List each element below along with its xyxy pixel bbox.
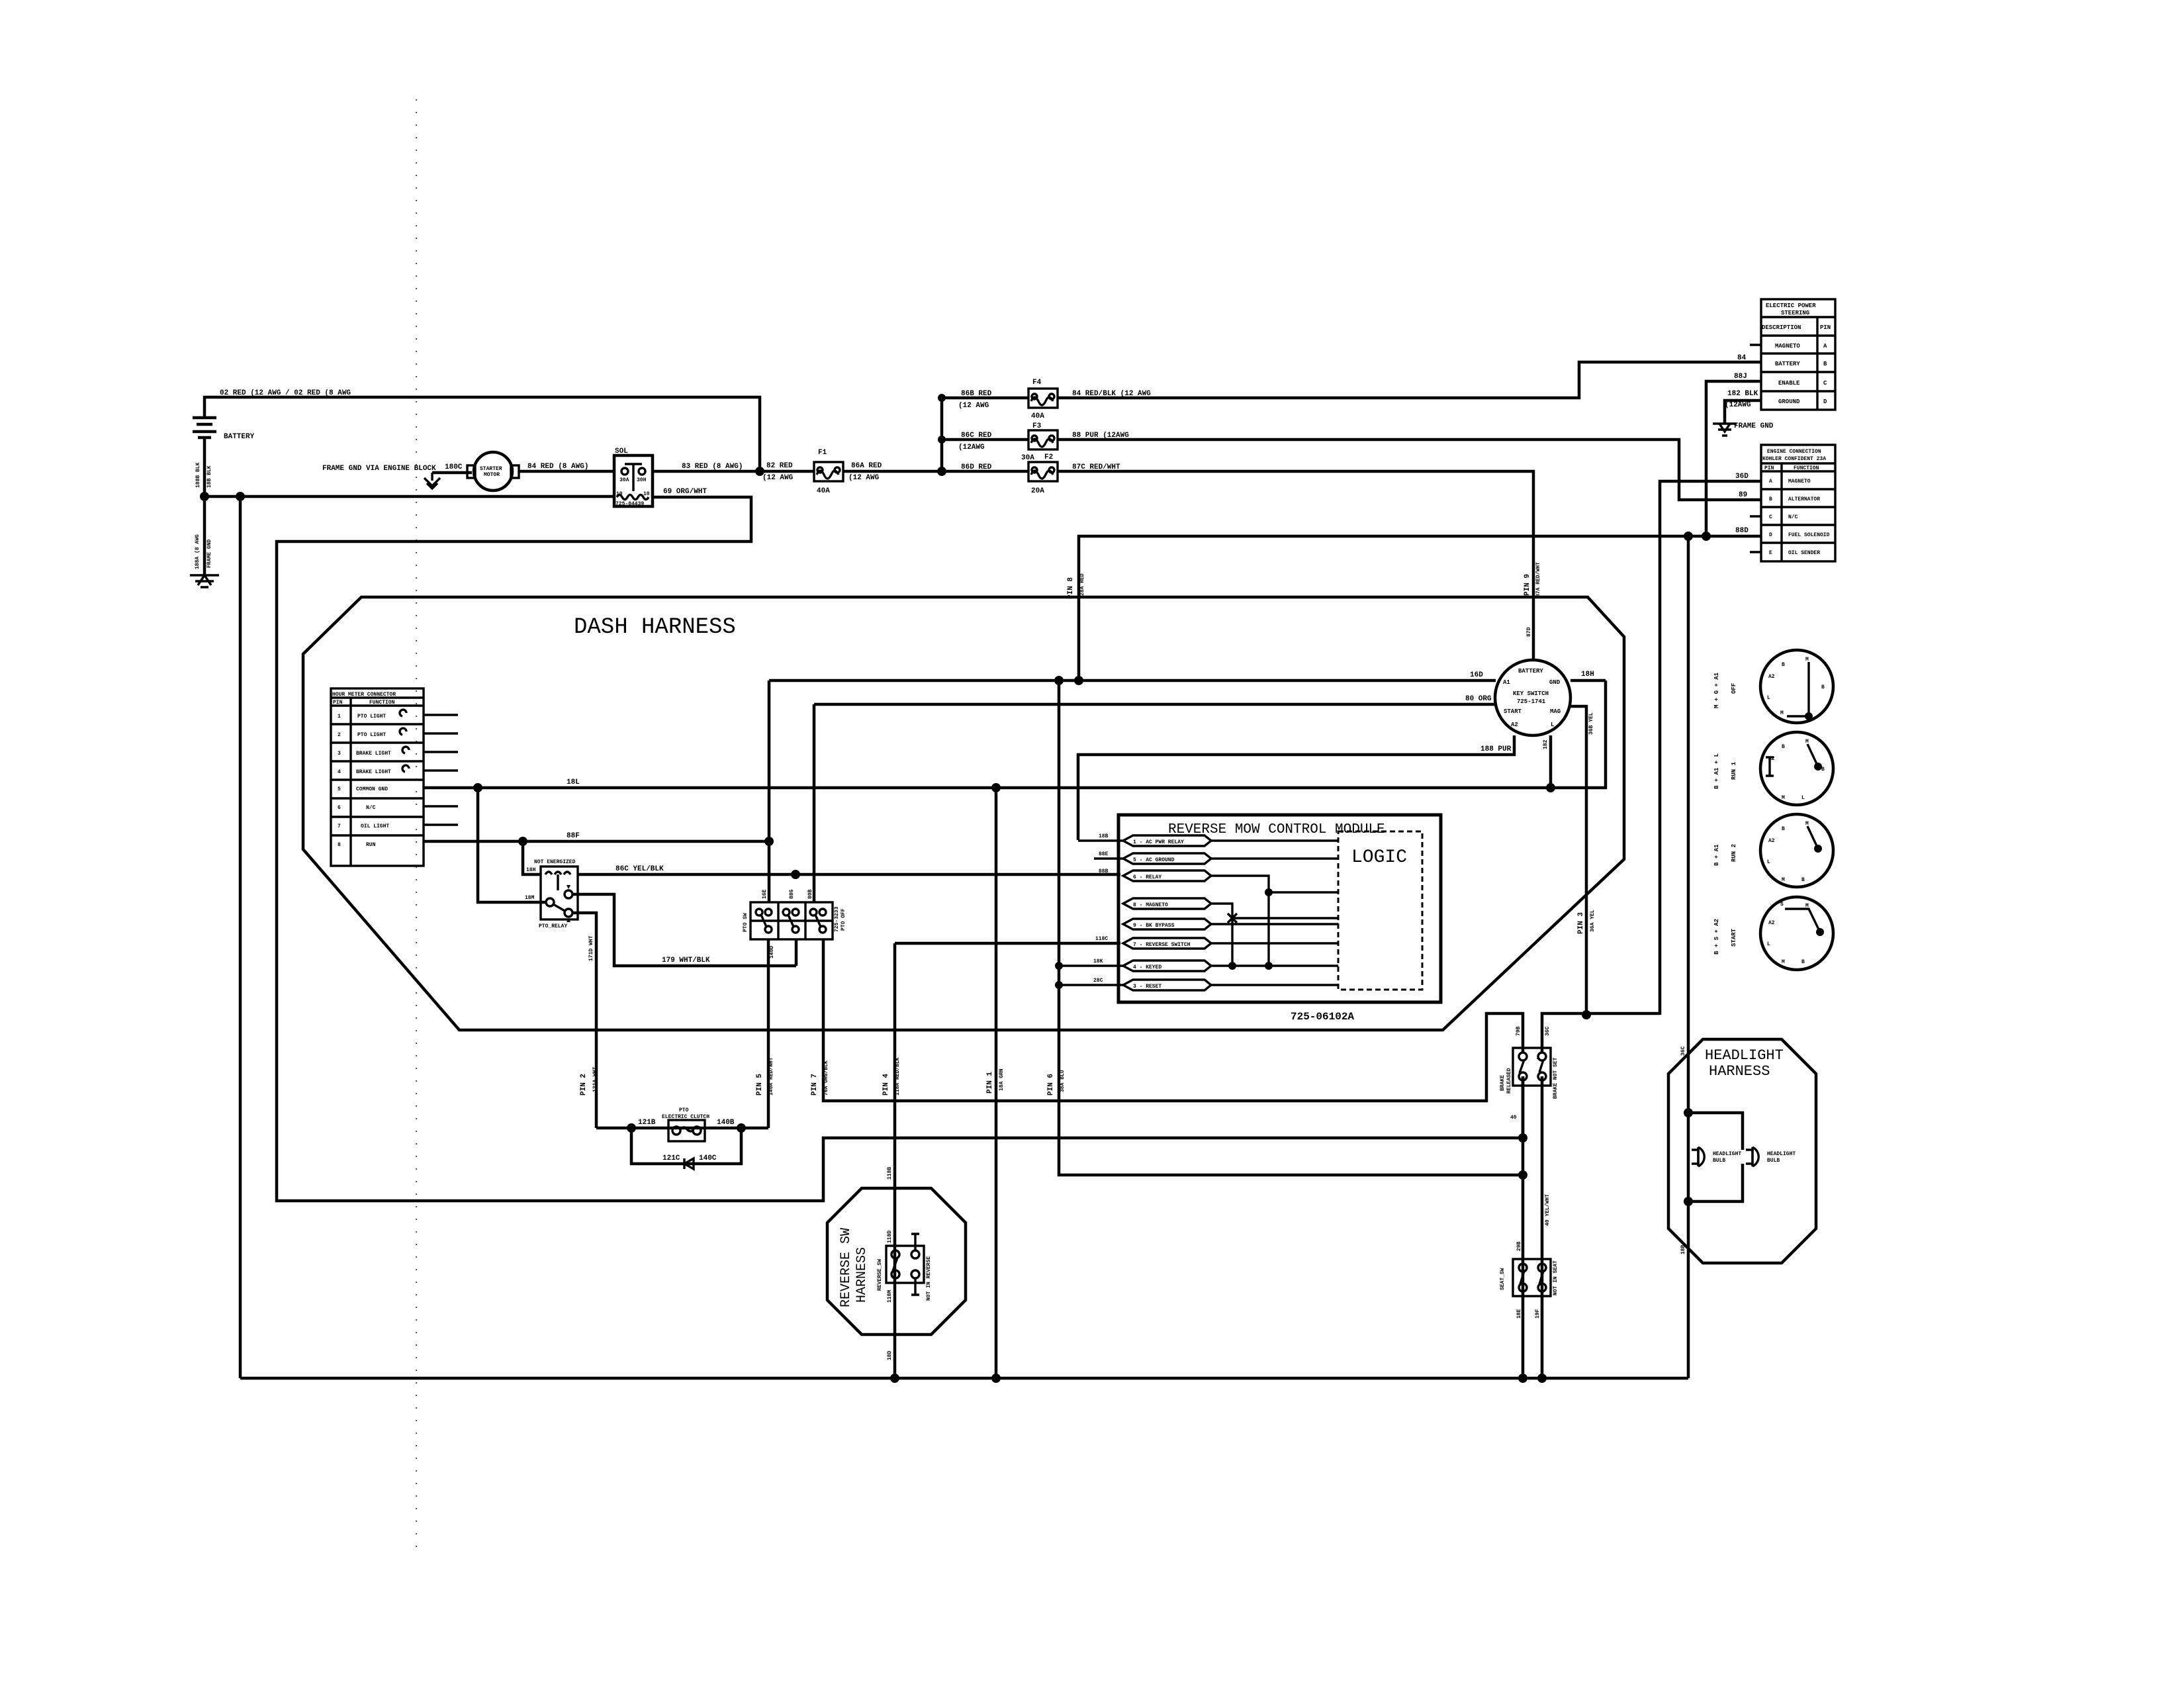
wire 88F run — [424, 840, 769, 843]
svg-text:6: 6 — [338, 805, 341, 811]
wire fuse bus vertical — [940, 398, 944, 471]
svg-text:B + S + A2: B + S + A2 — [1713, 919, 1720, 955]
wire 80 ORG key START — [814, 703, 1496, 706]
svg-text:86D RED: 86D RED — [961, 463, 992, 471]
key position START circle — [1760, 897, 1833, 970]
headlight bulb 1 — [1692, 1147, 1704, 1166]
svg-text:B: B — [1782, 744, 1785, 750]
svg-text:BATTERY: BATTERY — [1775, 361, 1800, 367]
pin pill 8 reset — [1123, 980, 1211, 990]
svg-text:121A WHT: 121A WHT — [592, 1066, 598, 1092]
wire relay coil out 86C YEL/BLK to module relay pill — [578, 873, 1120, 876]
pin pill 4 magneto — [1123, 898, 1211, 909]
svg-text:36B YEL: 36B YEL — [1588, 712, 1594, 735]
svg-text:BULB: BULB — [1713, 1158, 1725, 1164]
svg-text:7 - REVERSE SWITCH: 7 - REVERSE SWITCH — [1133, 942, 1191, 948]
wire F4 input — [942, 397, 1028, 400]
svg-text:F3: F3 — [1032, 422, 1042, 430]
svg-text:PTO_RELAY: PTO_RELAY — [539, 923, 567, 929]
wire brake BR down to bus — [1541, 1076, 1544, 1378]
wire pin3 stub — [424, 751, 458, 753]
svg-text:18K: 18K — [1093, 959, 1103, 964]
switch bank PTO SW — [751, 902, 833, 939]
svg-text:LOGIC: LOGIC — [1351, 847, 1407, 868]
pin pill 5 bypass — [1123, 919, 1211, 929]
svg-text:5: 5 — [338, 786, 341, 792]
svg-text:140A RED/WHT: 140A RED/WHT — [768, 1057, 774, 1096]
wire F3 input — [942, 438, 1028, 442]
svg-text:F4: F4 — [1032, 379, 1042, 387]
svg-text:PTO LIGHT: PTO LIGHT — [357, 732, 386, 738]
svg-text:16E: 16E — [762, 889, 768, 899]
wire PIN 7 76A ORG/BLK — [823, 939, 1523, 1101]
contacts section 2 — [783, 909, 790, 915]
svg-text:30A: 30A — [619, 477, 629, 483]
svg-text:188A (8 AWG: 188A (8 AWG — [195, 534, 201, 569]
svg-text:(12 AWG: (12 AWG — [848, 474, 880, 482]
svg-text:OFF: OFF — [1731, 683, 1737, 694]
svg-text:MOTOR: MOTOR — [484, 472, 500, 478]
svg-text:180C: 180C — [445, 463, 463, 471]
wire engine oil sender stub — [1750, 551, 1761, 553]
svg-text:START: START — [1731, 928, 1737, 947]
connector table dash harness pins — [331, 688, 424, 866]
svg-text:18L: 18L — [567, 778, 580, 786]
svg-text:118C: 118C — [1095, 936, 1108, 942]
wire EPS ground D — [1725, 400, 1761, 424]
svg-text:HEADLIGHT: HEADLIGHT — [1767, 1151, 1796, 1157]
svg-text:18D: 18D — [887, 1350, 893, 1360]
svg-text:RUN: RUN — [366, 842, 376, 848]
svg-text:725-04439: 725-04439 — [615, 501, 644, 507]
node EPS enable tap — [1702, 532, 1711, 541]
svg-text:FUEL SOLENOID: FUEL SOLENOID — [1788, 532, 1830, 538]
svg-text:HEADLIGHT: HEADLIGHT — [1713, 1151, 1741, 1157]
wire PIN 6 38A BLU seat feed — [1059, 1030, 1523, 1175]
svg-text:725-06102A: 725-06102A — [1291, 1011, 1354, 1023]
svg-text:GND: GND — [1549, 679, 1561, 686]
node PIN 1 tap — [991, 783, 1001, 792]
svg-text:18M: 18M — [525, 895, 535, 901]
svg-text:6 - RELAY: 6 - RELAY — [1133, 874, 1161, 880]
wire key GND 18H — [1570, 679, 1606, 682]
node relay common tap — [473, 783, 482, 792]
pin pill 7 keyed — [1123, 961, 1211, 971]
svg-text:OIL LIGHT: OIL LIGHT — [361, 823, 389, 829]
svg-text:79B: 79B — [1516, 1026, 1522, 1036]
key switch S1 725-1741 — [1495, 660, 1570, 735]
svg-text:171D WHT: 171D WHT — [588, 935, 594, 961]
svg-text:ALTERNATOR: ALTERNATOR — [1788, 496, 1820, 502]
svg-text:E: E — [1769, 550, 1772, 556]
node PIN1 bus junction — [991, 1374, 1001, 1383]
svg-text:A1: A1 — [1503, 679, 1510, 686]
svg-text:PIN 1: PIN 1 — [986, 1072, 994, 1094]
svg-text:28C: 28C — [1093, 978, 1103, 984]
svg-text:88F: 88F — [567, 832, 580, 840]
svg-text:HOUR METER CONNECTOR: HOUR METER CONNECTOR — [332, 692, 396, 698]
svg-text:B: B — [1769, 496, 1772, 502]
svg-text:1 - AC PWR RELAY: 1 - AC PWR RELAY — [1133, 839, 1184, 845]
svg-text:B: B — [1801, 877, 1805, 883]
svg-text:B: B — [1801, 959, 1805, 965]
node A1 vertical join — [764, 837, 774, 846]
wire pill6 to logic — [1211, 942, 1338, 944]
node brake light tap — [1518, 1133, 1527, 1143]
wire PIN 4 118A RED/BLK — [895, 943, 1120, 1378]
svg-text:4: 4 — [338, 769, 341, 775]
wire 69 ORG/WHT loop solenoid to brake — [277, 497, 1523, 1201]
wire pin6 stub — [424, 805, 458, 807]
svg-text:88J: 88J — [1734, 373, 1747, 381]
svg-text:86C RED: 86C RED — [961, 432, 992, 440]
wire magneto stub A — [1750, 344, 1761, 346]
svg-text:PTO LIGHT: PTO LIGHT — [357, 714, 386, 720]
svg-text:NOT ENERGIZED: NOT ENERGIZED — [534, 859, 576, 865]
svg-text:PIN 3: PIN 3 — [1577, 912, 1585, 934]
svg-text:BRAKE: BRAKE — [1500, 1075, 1506, 1091]
svg-text:BRAKE NOT SET: BRAKE NOT SET — [1553, 1057, 1559, 1099]
key position RUN 1 circle — [1760, 732, 1833, 805]
pin pill 1 — [1123, 835, 1211, 846]
switch reverse REVERSE_SW — [886, 1246, 924, 1283]
diode loop wire — [631, 1128, 741, 1164]
svg-text:18E: 18E — [1516, 1309, 1522, 1319]
svg-text:MAG: MAG — [1550, 708, 1561, 715]
svg-text:A2: A2 — [1768, 756, 1775, 762]
svg-text:36A YEL: 36A YEL — [1590, 910, 1596, 932]
wire headlight loop — [1688, 1113, 1743, 1201]
wire pin1 stub — [424, 714, 458, 716]
svg-text:B: B — [1821, 767, 1825, 773]
svg-text:PTO: PTO — [679, 1107, 689, 1113]
svg-text:M: M — [1780, 710, 1784, 716]
svg-text:4 - KEYED: 4 - KEYED — [1133, 964, 1161, 970]
svg-text:RUN 1: RUN 1 — [1731, 761, 1737, 780]
wire F2 out to key switch battery PIN 9 — [1058, 471, 1533, 661]
svg-text:30A: 30A — [1021, 454, 1034, 462]
svg-text:5 - AC GROUND: 5 - AC GROUND — [1133, 857, 1175, 863]
svg-text:D: D — [1769, 532, 1772, 538]
svg-text:83 RED (8 AWG): 83 RED (8 AWG) — [682, 463, 743, 471]
svg-text:PIN: PIN — [1820, 324, 1831, 331]
svg-text:02 RED (12 AWG / 02 RED (8 AWG: 02 RED (12 AWG / 02 RED (8 AWG — [220, 389, 351, 397]
svg-text:L: L — [1767, 859, 1770, 865]
svg-text:179 WHT/BLK: 179 WHT/BLK — [662, 957, 710, 964]
wire relay NO out 179 WHT/BLK — [572, 894, 796, 966]
svg-text:B + A1 + L: B + A1 + L — [1713, 753, 1720, 789]
svg-text:188B BLK: 188B BLK — [195, 462, 201, 488]
wire pill3 to logic via jog — [1211, 876, 1338, 966]
ground frame gnd EPS — [1713, 424, 1737, 436]
svg-text:121C: 121C — [662, 1154, 680, 1162]
wire ground bus left vertical — [239, 496, 242, 1378]
pin pill 6 reverse switch — [1123, 938, 1211, 949]
svg-text:36D: 36D — [1735, 473, 1749, 481]
ground engine block — [424, 473, 440, 489]
svg-text:KEY SWITCH: KEY SWITCH — [1513, 690, 1549, 697]
node x1600 drop — [1054, 676, 1064, 685]
svg-text:ENGINE CONNECTION: ENGINE CONNECTION — [1767, 449, 1821, 455]
svg-text:725-1741: 725-1741 — [1517, 698, 1546, 705]
node headlight feed tap — [1684, 532, 1693, 541]
svg-text:GROUND: GROUND — [1778, 399, 1800, 405]
svg-text:3: 3 — [338, 751, 341, 757]
wire 18L common gnd — [424, 680, 1606, 788]
node key L tap — [1546, 783, 1555, 792]
headlight harness octagon — [1668, 1039, 1816, 1263]
svg-text:FUNCTION: FUNCTION — [1794, 465, 1819, 471]
svg-text:88D: 88D — [1735, 527, 1749, 535]
wire PIN 1 18A GRN — [995, 788, 998, 1378]
svg-text:20A: 20A — [1031, 487, 1044, 495]
wire engine N/C stub — [1750, 515, 1761, 517]
svg-text:MAGNETO: MAGNETO — [1788, 479, 1811, 485]
svg-text:PIN 2: PIN 2 — [580, 1074, 588, 1096]
headlight bulb 2 — [1746, 1147, 1758, 1166]
node battery gnd junction — [200, 492, 209, 501]
svg-text:M: M — [1782, 795, 1785, 801]
battery B1 — [193, 418, 255, 575]
svg-text:DASH HARNESS: DASH HARNESS — [574, 615, 736, 640]
svg-text:9 - BK BYPASS: 9 - BK BYPASS — [1133, 923, 1175, 929]
svg-text:PTO SW: PTO SW — [743, 913, 749, 932]
svg-text:MAGNETO: MAGNETO — [1775, 343, 1800, 350]
wire bottom ground bus — [240, 1377, 1688, 1380]
svg-text:A2: A2 — [1768, 920, 1775, 926]
wire relay coil feed 88F — [523, 841, 541, 874]
svg-text:A: A — [1769, 479, 1772, 485]
svg-text:OIL SENDER: OIL SENDER — [1788, 550, 1820, 556]
svg-text:118M: 118M — [887, 1290, 893, 1303]
node diode branch right — [737, 1123, 746, 1133]
wire pin4 stub — [424, 769, 458, 771]
wire pill7 to logic — [1059, 964, 1338, 966]
svg-text:A2: A2 — [1511, 722, 1518, 728]
svg-text:40: 40 — [1510, 1115, 1517, 1121]
svg-text:L: L — [1551, 722, 1554, 728]
svg-text:REVERSE SW: REVERSE SW — [839, 1228, 854, 1307]
wire starter to solenoid — [519, 470, 614, 473]
svg-text:82 RED: 82 RED — [766, 462, 793, 470]
module reverse mow control 725-06102A — [1118, 815, 1441, 1002]
svg-text:PIN 6: PIN 6 — [1047, 1074, 1055, 1096]
svg-text:29B: 29B — [1516, 1241, 1522, 1251]
svg-text:L: L — [1767, 695, 1770, 701]
svg-text:BATTERY: BATTERY — [1518, 668, 1543, 675]
svg-text:L: L — [1767, 941, 1770, 947]
svg-text:88E: 88E — [1099, 851, 1109, 857]
svg-text:L: L — [1801, 795, 1805, 801]
fuse F4 40A — [1028, 379, 1058, 420]
svg-text:18H: 18H — [1581, 671, 1594, 679]
svg-text:2: 2 — [338, 732, 341, 738]
svg-text:140D: 140D — [769, 946, 775, 959]
svg-text:PIN: PIN — [1764, 465, 1774, 471]
wire magneto link to brake sw — [1542, 1013, 1660, 1053]
svg-text:HARNESS: HARNESS — [1709, 1063, 1770, 1080]
svg-text:C: C — [1823, 380, 1827, 387]
fuse F3 30A — [1021, 422, 1058, 462]
svg-text:START: START — [1504, 708, 1522, 715]
switch seat SEAT_SW — [1513, 1259, 1551, 1296]
svg-text:PIN 4: PIN 4 — [882, 1074, 890, 1096]
wire 16D key A1 — [769, 679, 1496, 682]
svg-text:87A RED/WHT: 87A RED/WHT — [1535, 562, 1541, 597]
svg-text:S: S — [1780, 902, 1784, 908]
wire clutch feed — [596, 1127, 768, 1130]
connector table ENGINE CONNECTION KOHLER — [1761, 445, 1835, 561]
svg-text:(12AWG: (12AWG — [1725, 401, 1751, 409]
contacts section 1 — [756, 909, 762, 915]
node magneto junction — [1582, 1010, 1591, 1019]
svg-text:188 PUR: 188 PUR — [1480, 745, 1512, 753]
svg-text:PTO OFF: PTO OFF — [841, 908, 846, 931]
svg-text:18A GRN: 18A GRN — [999, 1068, 1005, 1091]
switch brake — [1513, 1048, 1551, 1086]
dash harness octagon outline — [303, 597, 1624, 1030]
wire pill4 to logic via jog — [1211, 904, 1338, 966]
svg-text:(12 AWG: (12 AWG — [762, 474, 794, 482]
svg-text:40A: 40A — [1031, 412, 1044, 420]
svg-text:M + G + A1: M + G + A1 — [1713, 672, 1720, 708]
svg-text:36C: 36C — [1680, 1046, 1686, 1056]
svg-text:19F: 19F — [1535, 1309, 1541, 1319]
relay K1 PTO_RELAY — [541, 867, 578, 919]
key position OFF circle — [1760, 650, 1833, 723]
svg-text:BRAKE LIGHT: BRAKE LIGHT — [356, 769, 391, 775]
wire F4 out to EPS battery — [1058, 362, 1761, 398]
svg-text:140B: 140B — [717, 1119, 735, 1127]
svg-text:B + A1: B + A1 — [1713, 844, 1720, 866]
svg-text:HARNESS: HARNESS — [854, 1247, 870, 1303]
wire brake BL down to bus — [1522, 1076, 1525, 1378]
node fuse bus tap — [937, 467, 946, 476]
svg-text:84 RED (8 AWG): 84 RED (8 AWG) — [527, 463, 588, 471]
svg-text:M: M — [1805, 739, 1809, 745]
node keyed taps — [1055, 962, 1063, 970]
wire PIN 5 140A RED/WHT — [767, 939, 770, 1128]
svg-text:PIN: PIN — [333, 700, 343, 706]
svg-text:ENABLE: ENABLE — [1778, 380, 1800, 387]
svg-text:10: 10 — [643, 491, 650, 497]
svg-text:BRAKE LIGHT: BRAKE LIGHT — [356, 751, 391, 757]
wire key L to gnd line — [1549, 735, 1553, 788]
svg-text:STEERING: STEERING — [1781, 310, 1809, 316]
wire headlight feed vertical — [1687, 536, 1690, 1378]
node diode branch left — [627, 1123, 636, 1133]
svg-text:86C YEL/BLK: 86C YEL/BLK — [615, 865, 664, 873]
svg-text:F1: F1 — [818, 449, 827, 457]
svg-text:87D: 87D — [1526, 627, 1532, 637]
svg-text:80B: 80B — [807, 889, 813, 899]
svg-text:B: B — [1823, 361, 1827, 367]
svg-text:118D: 118D — [887, 1231, 893, 1243]
svg-text:PIN 5: PIN 5 — [756, 1074, 764, 1096]
svg-text:D: D — [1823, 399, 1827, 405]
svg-text:86B RED: 86B RED — [961, 390, 992, 398]
logic block — [1338, 831, 1422, 990]
wire EPS enable C — [1706, 381, 1761, 536]
wire A1 vertical to PTO switch — [768, 680, 771, 902]
svg-text:NOT IN REVERSE: NOT IN REVERSE — [926, 1256, 932, 1301]
svg-text:M: M — [1805, 821, 1809, 827]
svg-text:B: B — [1782, 826, 1785, 832]
svg-text:BULB: BULB — [1767, 1158, 1780, 1164]
svg-text:1: 1 — [338, 714, 341, 720]
ground frame gnd under battery — [190, 575, 219, 587]
svg-text:76A ORG/BLK: 76A ORG/BLK — [823, 1060, 829, 1096]
wire battery top 02 RED — [205, 397, 760, 471]
solenoid SOL — [614, 447, 653, 507]
wire F3 out to engine alternator — [1058, 440, 1761, 500]
wire pill8 to logic — [1059, 984, 1338, 986]
svg-text:FUNCTION: FUNCTION — [369, 700, 395, 706]
svg-text:28A RED: 28A RED — [1079, 573, 1085, 596]
wire PTO mid column down join — [795, 939, 798, 966]
svg-text:RUN 2: RUN 2 — [1731, 844, 1737, 862]
connector table ELECTRIC POWER STEERING — [1761, 299, 1835, 410]
wire PIN 8 28A RED to fuel solenoid D — [1079, 536, 1761, 680]
svg-text:COMMON GND: COMMON GND — [356, 786, 388, 792]
svg-text:10: 10 — [616, 491, 623, 497]
svg-text:86A RED: 86A RED — [851, 462, 882, 470]
pin pill 3 — [1123, 870, 1211, 881]
svg-text:RELEASED: RELEASED — [1506, 1068, 1512, 1094]
wire START vertical to PTO switch — [813, 704, 816, 902]
wire relay NC out PIN 2 — [572, 913, 596, 1128]
svg-text:M: M — [1805, 657, 1809, 663]
node PIN8 join — [1074, 676, 1083, 685]
node seat feed tap — [1518, 1170, 1527, 1180]
pin pill 2 — [1123, 853, 1211, 864]
svg-text:725-3233: 725-3233 — [834, 906, 840, 932]
svg-text:182 BLK: 182 BLK — [1727, 390, 1758, 398]
svg-text:18H: 18H — [526, 867, 536, 873]
svg-text:KOHLER CONFIDENT 23A: KOHLER CONFIDENT 23A — [1762, 456, 1826, 462]
svg-text:40A: 40A — [817, 487, 830, 495]
wire pin7 stub — [424, 823, 458, 825]
svg-text:FRAME GND VIA ENGINE BLOCK: FRAME GND VIA ENGINE BLOCK — [322, 465, 436, 473]
svg-text:8: 8 — [338, 842, 341, 848]
svg-text:A2: A2 — [1768, 838, 1775, 844]
svg-text:REVERSE_SW: REVERSE_SW — [877, 1259, 883, 1291]
svg-text:N/C: N/C — [366, 805, 376, 811]
wire pill5 to logic — [1211, 923, 1338, 925]
svg-text:N/C: N/C — [1788, 514, 1798, 520]
node headlight bottom tap — [1684, 1197, 1693, 1206]
starter motor M1 — [467, 452, 519, 491]
svg-text:18B: 18B — [1099, 833, 1109, 839]
svg-text:DESCRIPTION: DESCRIPTION — [1762, 324, 1801, 331]
node relay wire taps — [791, 870, 800, 879]
svg-text:B: B — [1782, 662, 1785, 668]
svg-text:3 - RESET: 3 - RESET — [1133, 984, 1161, 990]
svg-text:118B: 118B — [887, 1167, 893, 1180]
contacts section 3 — [810, 909, 817, 915]
wire 18C battery to solenoid coil — [205, 495, 614, 498]
reverse sw harness octagon — [827, 1188, 966, 1335]
node brake bus junctions — [1518, 1374, 1527, 1383]
svg-text:(12AWG: (12AWG — [958, 444, 985, 451]
svg-text:38A BLU: 38A BLU — [1060, 1070, 1066, 1092]
wire gnd to starter — [432, 471, 472, 475]
svg-text:M: M — [1782, 877, 1785, 883]
svg-text:18B BLK: 18B BLK — [206, 465, 212, 488]
svg-text:FRAME GND: FRAME GND — [1734, 422, 1774, 430]
wire pill1 to logic — [1078, 839, 1338, 841]
svg-text:BATTERY: BATTERY — [224, 433, 255, 441]
